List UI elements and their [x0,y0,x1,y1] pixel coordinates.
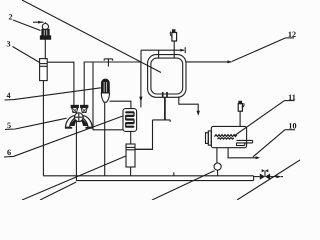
condenser 6 (finned) [123,109,137,132]
wire tee left end down and to filter F1 [135,120,153,149]
wire branch from discharge line down to condenser bottom-left [93,62,123,130]
leader 10 [285,129,295,131]
wire sensor S1 to vessel [173,41,175,59]
tank drain to right arrow [228,148,256,158]
leader line to vessel 1 (from top edge) [22,0,161,73]
vessel 1 (double-wall rounded) [148,55,186,98]
label 12 [288,30,296,39]
svg-text:2: 2 [8,13,12,22]
wire filter3 bottom down to header [42,81,44,176]
wire receiver4 stem to header [104,102,106,176]
vessel top line with arrow and flange [141,49,184,51]
header pipe (long horizontal) [43,175,253,177]
wire condenser to filter F1 [130,131,132,144]
leader 2 [13,20,41,31]
label 11 [288,93,296,102]
receiver 4 (dark cylinder with skirt) [101,79,109,102]
inlet arrow into valve 2 [33,21,44,23]
valve V1 on header outlet [254,176,260,178]
T vent symbol on discharge line [107,59,109,67]
sensor S1 on vessel top [170,30,176,41]
label 10 [288,122,296,131]
label 2 [8,13,12,22]
svg-text:4: 4 [6,91,10,100]
leader 4 [5,88,101,100]
leader 12 [286,37,295,39]
leader 11 [285,100,295,102]
wire receiver4 outlet to condenser top [110,101,131,108]
svg-text:3: 3 [6,40,10,49]
drain tee horizontal [153,119,171,121]
wire valve2 to filter 3 [44,39,46,58]
wire filter F1 right port [135,148,153,150]
heater element in tank [237,140,253,145]
wire filter3 outlet to compressor left head [47,62,74,105]
leader 9 (from bottom edge to pump P1) [152,171,215,200]
sensor S2 on tank top [238,101,244,111]
filter F1 (bottom vertical cylinder) [126,144,135,167]
stub on header [173,172,175,176]
leader 8 (from bottom edge to header corner) [40,182,76,200]
vessel top-left port [158,50,160,58]
wire compressor bottom down to header bottom line [75,122,77,181]
leader 3 [13,47,40,63]
label 5 [7,121,11,130]
vessel bottom-right port to down arrow [179,97,198,113]
liquid marks inside tank [215,135,237,137]
compressor 5 (two-cylinder) [65,105,93,127]
valve 2 (small bottle with dome) [42,24,48,30]
branch down beside condenser with down arrow [140,62,142,107]
tank 11 (horizontal vessel) [211,126,246,147]
wire pump P1 to header [217,170,219,176]
vessel right outlet with arrow to label 12 [186,61,232,63]
svg-text:6: 6 [7,148,11,157]
pump P1 [214,163,221,170]
discharge branch up to vessel top line [140,50,142,62]
wire filter F1 down to header [130,167,132,176]
compressor 5 discharge wire (right head up and right) [84,62,141,106]
wire sensor S2 to tank [239,111,241,126]
label 3 [6,40,10,49]
vessel drain pipe down [164,97,166,120]
filter 3 (vertical cylinder) [40,59,48,81]
leader 13 (bottom right diagonal) [237,160,300,200]
leader 5 [5,118,67,129]
leader 7 (from bottom edge to filter F1) [22,156,126,200]
wire tank to pump P1 [216,148,218,163]
vessel bottom fitting [162,92,164,97]
label 6 [7,148,11,157]
tank left end cap [208,131,211,145]
label 4 [6,91,10,100]
outlet arrow after valve V1 [270,176,280,178]
leader 6 [4,116,123,157]
